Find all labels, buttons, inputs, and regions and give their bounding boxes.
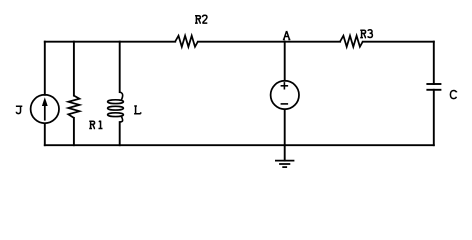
resistor R2 xyxy=(175,36,198,47)
resistor R3 xyxy=(340,36,363,47)
label C xyxy=(450,91,456,99)
wire L vertical below xyxy=(119,122,121,145)
ground bar 2 xyxy=(279,163,290,165)
label L xyxy=(134,106,141,114)
capacitor C bottom plate xyxy=(426,89,441,91)
wire below V source to bottom wire xyxy=(284,109,286,145)
wire left vertical above J xyxy=(44,42,46,95)
label R1 xyxy=(89,121,102,129)
wire right vertical below C xyxy=(433,90,435,145)
node A label xyxy=(283,31,291,39)
wire top-middle horizontal (R2 to node A) xyxy=(198,41,285,43)
label J xyxy=(16,106,22,113)
current source J arrow xyxy=(44,105,46,121)
current source J circle xyxy=(31,95,59,123)
wire top-left horizontal (J node to R2) xyxy=(45,41,175,43)
wire node A vertical above V source xyxy=(284,42,286,81)
wire R1 vertical below xyxy=(73,118,75,145)
wire top-right horizontal (R3 to C) xyxy=(363,41,434,43)
resistor R1 xyxy=(68,96,79,118)
wire R1 vertical above xyxy=(73,42,75,96)
ground stem xyxy=(284,145,286,160)
wire top horizontal (node A to R3) xyxy=(285,41,340,43)
ground bar 1 xyxy=(275,160,294,162)
inductor L xyxy=(108,92,124,122)
voltage source circle xyxy=(271,81,299,109)
capacitor C top plate xyxy=(426,83,441,85)
wire bottom horizontal xyxy=(45,144,434,146)
wire left vertical below J xyxy=(44,123,46,145)
label R3 xyxy=(360,30,372,38)
wire L vertical above xyxy=(119,42,121,92)
voltage source plus sign xyxy=(281,82,289,104)
voltage source minus sign xyxy=(281,103,289,105)
ground bar 3 xyxy=(282,166,287,168)
wire right vertical above C xyxy=(433,42,435,84)
label R2 xyxy=(195,15,207,23)
